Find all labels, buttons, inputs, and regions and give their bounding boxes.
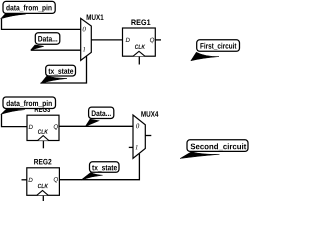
pin 1 label of MUX4 xyxy=(135,145,137,149)
clock edge triangle of REG2 xyxy=(37,191,48,196)
wire net tx_state to MUX1 select input xyxy=(41,56,87,83)
wire MUX1 output to REG1 D xyxy=(91,39,122,41)
pin CLK of REG3 xyxy=(38,129,48,133)
tag data_from_pin (bottom) on net data_from_pin xyxy=(1,97,56,114)
wire REG2 D input stub xyxy=(22,179,27,181)
clock edge triangle of REG3 xyxy=(38,136,49,141)
clock edge triangle of REG1 xyxy=(133,51,145,56)
tag Second_circuit xyxy=(180,140,248,159)
tag First_circuit xyxy=(191,40,240,61)
wire REG2 clock stub xyxy=(42,195,44,201)
tag Data... (bottom) on net Data xyxy=(85,107,113,126)
wire net tx_state REG2 Q to MUX4 select input xyxy=(59,154,139,180)
pin Q of REG3 xyxy=(54,124,58,129)
register REG2 xyxy=(27,159,60,195)
pin D of REG1 xyxy=(126,38,130,42)
wire net Data to MUX1 input 1 xyxy=(31,49,81,51)
wire REG1 clock stub xyxy=(138,56,140,64)
wire net data_from_pin to REG3 D xyxy=(2,114,28,126)
pin Q of REG2 xyxy=(54,177,58,183)
wire net data_from_pin to MUX1 input 0 xyxy=(2,19,81,29)
pin 1 label of MUX1 xyxy=(83,47,85,51)
mux MUX4 xyxy=(133,111,158,158)
register REG3 xyxy=(27,106,59,140)
pin 0 label of MUX1 xyxy=(83,27,86,32)
tag Data... (top) on net Data xyxy=(31,33,60,50)
pin D of REG2 xyxy=(28,178,32,182)
pin Q of REG1 xyxy=(150,38,154,44)
wire REG1 Q output stub xyxy=(155,39,161,41)
pin D of REG3 xyxy=(29,125,33,129)
tag tx_state (top) on net tx_state xyxy=(41,65,76,83)
pin CLK of REG2 xyxy=(38,184,48,188)
wire net Data REG3 Q to MUX4 input 0 xyxy=(59,125,133,127)
tag data_from_pin (top) on net data_from_pin xyxy=(1,1,56,19)
register REG1 xyxy=(123,19,156,56)
wire MUX4 input 1 stub xyxy=(129,146,133,148)
mux MUX1 xyxy=(81,14,104,60)
wire REG3 clock stub xyxy=(42,141,44,149)
tag tx_state (bottom) on net tx_state xyxy=(81,162,119,180)
wire MUX4 output stub xyxy=(145,135,151,137)
pin 0 label of MUX4 xyxy=(136,124,139,129)
pin CLK of REG1 xyxy=(135,45,145,49)
